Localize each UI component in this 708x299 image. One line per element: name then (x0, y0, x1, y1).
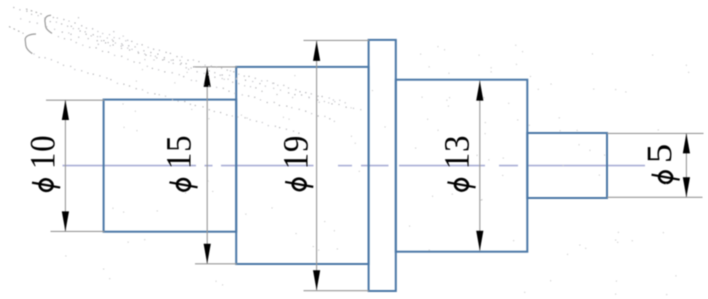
scan artifact hook 2 (25, 34, 36, 54)
label phi13 phi symbol (446, 177, 476, 193)
label phi15 digits (167, 137, 191, 167)
arrow phi10 top (62, 100, 69, 120)
label phi19 digits (284, 137, 308, 167)
dimension line phi10 (64, 100, 66, 231)
label phi10 digits (31, 137, 55, 167)
dimension line phi19 (316, 41, 318, 290)
scan artifact dotted fan (13, 7, 361, 134)
label phi19 phi symbol (284, 176, 314, 192)
arrow phi13 top (476, 81, 483, 101)
section phi19 flange (369, 40, 396, 291)
centerline (63, 165, 646, 167)
arrow phi19 bottom (313, 270, 320, 290)
dimension line phi13 (479, 81, 481, 251)
label phi5 digits (648, 145, 672, 161)
extension lines phi15 (193, 67, 237, 264)
scan artifact hook 1 (45, 15, 52, 33)
dimension line phi5 (685, 133, 687, 197)
section phi10 body (104, 100, 237, 232)
arrow phi5 top (683, 133, 690, 153)
extension lines phi19 (304, 40, 370, 290)
extension lines phi10 (46, 100, 105, 231)
label phi15 phi symbol (168, 177, 198, 193)
arrow phi19 top (313, 41, 320, 61)
extension lines phi5 (607, 133, 704, 197)
section phi15 body (236, 67, 368, 264)
label phi5 phi symbol (651, 169, 681, 185)
section phi5 body (527, 133, 607, 198)
section phi13 body (396, 80, 528, 252)
scan artifact hook 2 leader (9, 27, 24, 34)
scan artifact hook 1 leader (26, 9, 42, 14)
dimension line phi15 (206, 67, 208, 264)
label phi10 phi symbol (31, 177, 61, 193)
arrow phi15 top (204, 67, 211, 87)
arrow phi5 bottom (683, 177, 690, 197)
scan artifact speckles (65, 45, 689, 295)
arrow phi15 bottom (204, 244, 211, 264)
arrow phi10 bottom (62, 211, 69, 231)
arrow phi13 bottom (476, 231, 483, 251)
label phi13 digits (445, 137, 469, 167)
